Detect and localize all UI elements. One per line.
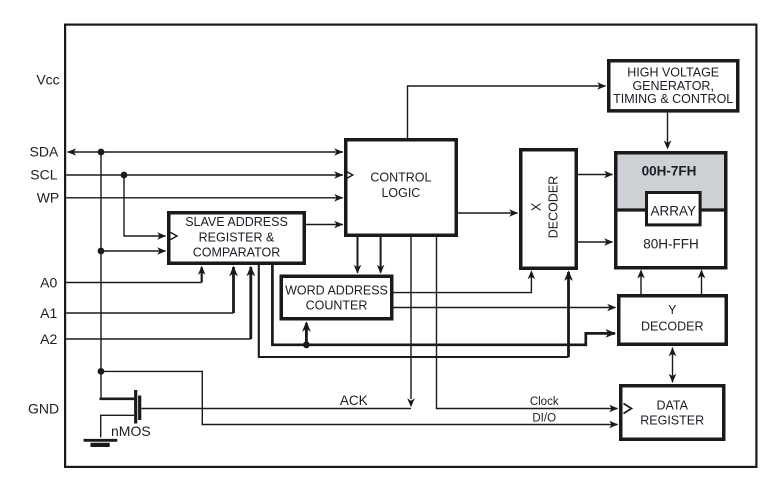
wire slave register to control logic [306, 224, 343, 226]
wire SCL branch to slave address register [124, 175, 166, 236]
svg-text:COMPARATOR: COMPARATOR [193, 246, 281, 260]
svg-text:Vcc: Vcc [36, 71, 59, 87]
wire SDA vertical [100, 152, 102, 399]
svg-text:A0: A0 [40, 274, 57, 290]
svg-text:A1: A1 [40, 305, 57, 321]
svg-text:SCL: SCL [30, 167, 57, 183]
svg-text:CONTROL: CONTROL [370, 170, 431, 184]
wire X decoder to array lower [578, 241, 613, 243]
svg-text:ARRAY: ARRAY [651, 203, 697, 218]
wire slave register bus to X decoder [259, 265, 569, 357]
svg-text:TIMING & CONTROL: TIMING & CONTROL [613, 92, 733, 106]
clock input chevron control logic [346, 171, 353, 178]
wire Y decoder to array left [640, 271, 642, 294]
wire SCL bus [66, 174, 343, 176]
wire word address counter to X decoder [394, 272, 532, 293]
node SDA branch junction [98, 248, 105, 255]
node SCL junction [121, 172, 128, 179]
node word address counter feed junction [303, 341, 310, 348]
transistor nMOS gate bar [138, 396, 141, 421]
svg-text:Clock: Clock [530, 396, 559, 408]
svg-text:SLAVE ADDRESS: SLAVE ADDRESS [185, 215, 288, 229]
block X DECODER [521, 150, 577, 269]
block DATA REGISTER [621, 386, 724, 440]
svg-text:X: X [530, 202, 544, 211]
block Y DECODER [619, 296, 727, 345]
svg-text:LOGIC: LOGIC [381, 186, 420, 200]
svg-text:ACK: ACK [340, 393, 368, 408]
transistor nMOS drain lead [100, 397, 136, 400]
wire A2 [66, 338, 251, 340]
block memory array [616, 153, 726, 268]
transistor nMOS channel bar [134, 390, 137, 424]
wire control logic to word address counter 1 [357, 237, 359, 273]
svg-text:nMOS: nMOS [111, 423, 151, 439]
wire DI/O path [101, 371, 618, 424]
svg-text:GENERATOR,: GENERATOR, [632, 79, 714, 93]
wire slave register bus to Y decoder [272, 265, 615, 345]
ground symbol [84, 439, 118, 442]
svg-text:DATA: DATA [656, 398, 688, 412]
wire SDA bus [68, 151, 344, 153]
wire control logic to high voltage generator [408, 86, 606, 138]
block SLAVE ADDRESS REGISTER & COMPARATOR [169, 213, 305, 264]
wire high voltage generator to array [667, 113, 669, 146]
svg-text:REGISTER: REGISTER [640, 414, 704, 428]
svg-text:DI/O: DI/O [532, 412, 556, 424]
clock input chevron slave register [171, 232, 178, 239]
transistor nMOS source lead [101, 415, 134, 437]
wire ACK line to nMOS drain [142, 408, 412, 410]
svg-text:GND: GND [28, 400, 59, 416]
wire Y decoder to array right [701, 271, 703, 294]
svg-text:80H-FFH: 80H-FFH [643, 237, 699, 252]
svg-text:HIGH VOLTAGE: HIGH VOLTAGE [627, 65, 719, 79]
svg-text:A2: A2 [40, 331, 57, 347]
block WORD ADDRESS COUNTER [281, 276, 392, 319]
svg-text:DECODER: DECODER [641, 320, 704, 334]
wire word address counter to Y decoder [394, 307, 616, 309]
svg-text:WP: WP [37, 189, 60, 205]
wire ACK from control logic [410, 237, 412, 399]
svg-text:00H-7FH: 00H-7FH [642, 163, 697, 178]
svg-text:REGISTER &: REGISTER & [199, 230, 275, 244]
svg-text:SDA: SDA [30, 144, 59, 160]
array upper half 00H-7FH shaded [618, 155, 725, 212]
svg-text:COUNTER: COUNTER [306, 299, 368, 313]
svg-text:WORD ADDRESS: WORD ADDRESS [285, 283, 388, 297]
wire Clock from control logic [437, 237, 618, 409]
wire junction to word address counter [305, 323, 308, 345]
svg-text:Y: Y [668, 303, 677, 317]
node SDA junction [98, 149, 105, 156]
array half divider [616, 208, 726, 211]
block HIGH VOLTAGE GENERATOR TIMING & CONTROL [609, 61, 738, 111]
node DI/O junction [98, 368, 105, 375]
wire Y decoder to data register [672, 348, 674, 383]
wire control logic to X decoder [458, 212, 518, 214]
wire X decoder to array upper [578, 174, 613, 176]
wire WP [66, 197, 343, 199]
block ARRAY tag [647, 193, 701, 225]
wire A0 [66, 282, 202, 284]
wire control logic to word address counter 2 [380, 237, 382, 273]
wire SDA branch to slave address register [101, 250, 166, 252]
clock input chevron data register [624, 404, 632, 414]
svg-text:DECODER: DECODER [546, 176, 560, 239]
wire A1 [66, 312, 233, 314]
block CONTROL LOGIC [346, 140, 457, 236]
